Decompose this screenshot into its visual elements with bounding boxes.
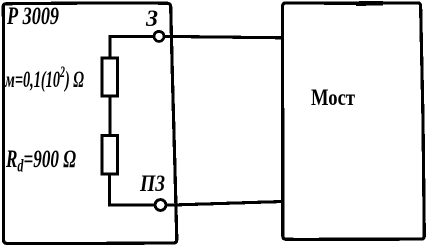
wire from resistor Rd bottom down and right to terminal П3	[110, 174, 155, 205]
terminal П3 (binding post circle)	[155, 200, 166, 211]
value label Rd=900 Ω	[5, 144, 76, 176]
wire terminal 3 to bridge box	[165, 36, 283, 37]
wire terminal П3 to bridge box	[167, 202, 283, 206]
wire: top edge retrace bump on bridge box	[356, 1, 383, 6]
wire from resistor r1 top up and right to terminal 3	[110, 36, 153, 58]
svg-text:Мост: Мост	[311, 85, 355, 111]
wire between resistor r1 and resistor Rd	[109, 96, 112, 136]
svg-text:П3: П3	[139, 170, 165, 196]
svg-text:3: 3	[145, 6, 158, 31]
label Мост	[311, 85, 355, 111]
terminal 3 (binding post circle)	[154, 31, 164, 41]
svg-text:Rd=900 Ω: Rd=900 Ω	[5, 144, 76, 176]
value label r1: м=0,1(10²) Ω	[4, 63, 84, 93]
enclosure box Мост (bridge)	[283, 3, 425, 240]
resistor Rd	[102, 136, 118, 175]
label Р3009	[6, 2, 59, 30]
svg-text:м=0,1(102) Ω: м=0,1(102) Ω	[4, 63, 84, 93]
resistor r1	[102, 58, 118, 96]
enclosure box P3009 (left instrument box)	[3, 3, 177, 244]
label П3	[139, 170, 165, 196]
svg-text:Р 3009: Р 3009	[6, 2, 59, 30]
